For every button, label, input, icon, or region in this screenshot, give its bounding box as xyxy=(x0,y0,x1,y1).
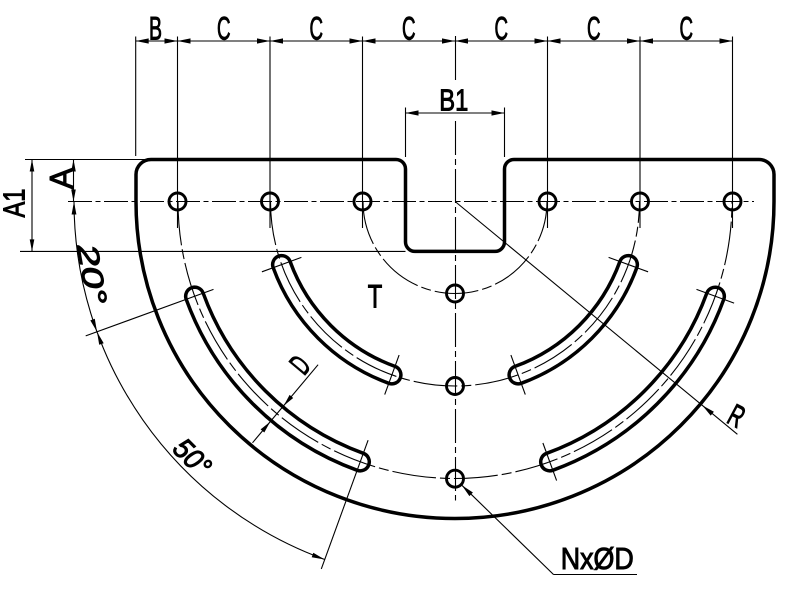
svg-text:C: C xyxy=(309,11,323,47)
extension line x=177.5 xyxy=(177,37,179,229)
extension line x=270 xyxy=(269,37,271,229)
svg-text:A1: A1 xyxy=(0,189,32,218)
slot outer-left xyxy=(186,287,370,471)
svg-text:C: C xyxy=(402,11,416,47)
horizontal centerline hole row xyxy=(68,201,754,203)
dimension line B C C C C C C xyxy=(136,40,733,42)
tick inner-left lower xyxy=(385,355,399,395)
slot inner-right xyxy=(509,256,637,384)
bolt circle arc r1 centerline xyxy=(363,202,547,294)
svg-text:C: C xyxy=(217,11,231,47)
svg-text:C: C xyxy=(494,11,508,47)
tick inner-left upper xyxy=(262,257,302,271)
bolt circle arc r2 centerline xyxy=(271,202,640,387)
extension line x=732.5 xyxy=(732,37,734,229)
extension line radial 70deg xyxy=(321,440,368,569)
tick outer-right lower xyxy=(543,443,557,481)
extension lines B1 xyxy=(405,108,407,158)
dimension line B1 xyxy=(406,112,505,114)
bolt circle arc r3 centerline xyxy=(178,202,732,479)
tick outer-right upper xyxy=(697,289,735,303)
tick inner-right lower xyxy=(511,355,525,395)
svg-text:B1: B1 xyxy=(439,82,468,117)
dimension D slot width xyxy=(253,365,319,443)
extension line top edge left xyxy=(25,159,146,161)
dimension line A xyxy=(73,160,75,202)
hole center middle xyxy=(447,378,464,395)
extension line x=547.5 xyxy=(547,37,549,229)
hole 4 top row xyxy=(539,193,556,210)
svg-text:C: C xyxy=(679,11,693,47)
hole 1 top row xyxy=(169,193,186,210)
extension line notch bottom left xyxy=(20,250,406,252)
svg-text:NxØD: NxØD xyxy=(561,541,634,576)
slot inner-left xyxy=(273,256,401,384)
extension line x=640 xyxy=(639,37,641,229)
dimension arc 20/50 deg xyxy=(74,202,325,560)
svg-text:A: A xyxy=(44,167,80,189)
svg-text:T: T xyxy=(368,279,383,315)
extension line left edge xyxy=(135,37,137,157)
tick inner-right upper xyxy=(609,257,649,271)
dimension R radial leader xyxy=(456,202,738,434)
arrows angular dims xyxy=(72,202,77,215)
hole center bottom N xyxy=(447,470,464,487)
hole center upper xyxy=(447,285,464,302)
arrows top chain xyxy=(136,38,149,43)
plate outline xyxy=(136,160,774,519)
hole 2 top row xyxy=(262,193,279,210)
slot outer-right xyxy=(541,287,725,471)
extension line x=362.5 xyxy=(362,37,364,229)
extension line radial 20deg xyxy=(86,289,214,336)
hole 6 top row xyxy=(724,193,741,210)
svg-text:C: C xyxy=(587,11,601,47)
vertical centerline xyxy=(455,36,457,80)
hole 5 top row xyxy=(632,193,649,210)
hole 3 top row xyxy=(354,193,371,210)
leader NxOD xyxy=(462,485,554,574)
dimension line A1 xyxy=(31,160,33,252)
svg-text:B: B xyxy=(149,11,162,47)
